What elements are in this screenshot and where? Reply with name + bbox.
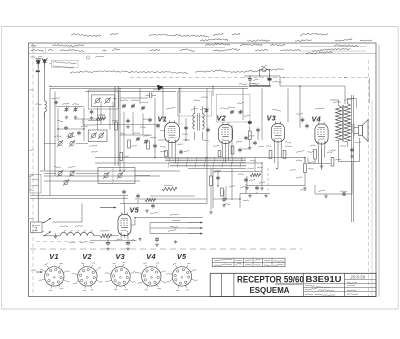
resistor R-d1 — [115, 122, 118, 130]
capacitor C-m2 — [156, 124, 160, 129]
coil box B2 — [88, 130, 107, 142]
switch S1b — [43, 231, 51, 236]
label v3 small — [266, 145, 292, 148]
trimmer CT4 — [204, 108, 208, 113]
label v1 small — [160, 144, 183, 148]
wire left mids — [44, 144, 150, 176]
wire heater bus — [40, 171, 180, 181]
scan page edge right — [397, 27, 399, 310]
capacitor C-t1 — [90, 110, 94, 120]
variable coil L11 — [69, 170, 75, 176]
resistor R-ls — [145, 198, 156, 201]
vertical dashed lm — [267, 168, 269, 190]
label power small — [60, 225, 137, 240]
trimmer CT2 — [131, 104, 135, 109]
capacitor C-d2 — [77, 131, 81, 136]
drawing frame right inner line — [378, 45, 380, 297]
resistor R-t1 — [96, 114, 106, 120]
arrow labels — [168, 214, 180, 232]
capacitor C-m3 — [153, 144, 157, 149]
trimmer CT7 — [133, 133, 150, 144]
handwritten header annotations — [31, 33, 372, 54]
wire lm — [240, 184, 270, 194]
left small box — [30, 175, 41, 194]
wire 23 — [258, 120, 262, 140]
capacitor C-p2 — [126, 241, 130, 251]
switch S1a — [43, 218, 51, 223]
fold dash-dot line right — [368, 60, 370, 296]
wire B+ dashed line — [130, 77, 370, 79]
small check marks — [31, 56, 105, 59]
label V5 — [130, 206, 140, 215]
capacitor C-if1 — [206, 128, 210, 133]
capacitor C-v4a — [296, 113, 304, 122]
label V4 socket — [146, 252, 156, 261]
resistor R-lm1 diagonal — [250, 173, 261, 176]
ground lm1 — [248, 194, 252, 198]
capacitor C-lm2 — [255, 186, 259, 191]
title text B3E91U — [306, 274, 342, 284]
transformer T1 secondary — [344, 104, 350, 143]
separator dashed line — [30, 248, 302, 250]
wire plug to heater — [44, 235, 60, 237]
coil box B3 — [178, 92, 212, 117]
capacitor C-v1 — [179, 150, 189, 155]
coil box B5 — [98, 168, 135, 184]
band hatch ticks — [168, 157, 242, 168]
socket V2 — [72, 263, 103, 291]
tube V2 — [218, 122, 232, 146]
power plug X1 — [31, 222, 43, 233]
header partial rule — [29, 47, 367, 51]
wire T1 bottom — [339, 138, 360, 162]
info box leader — [49, 63, 52, 65]
resistor R-v2b — [231, 146, 234, 154]
svg-text:V2: V2 — [82, 252, 92, 261]
capacitor C-ls1 — [122, 190, 126, 195]
info box top-left — [52, 60, 79, 68]
underline 59/60 — [276, 283, 303, 285]
variable coil L13 — [103, 172, 109, 178]
socket V4 — [136, 263, 167, 291]
resistor R-v4k — [308, 150, 317, 160]
variable coil L8 — [57, 140, 63, 146]
label L1011 — [54, 166, 75, 167]
label V3 socket — [116, 252, 126, 261]
svg-text:7: 7 — [35, 227, 38, 233]
svg-text:V5: V5 — [130, 206, 140, 215]
socket leader arrow — [31, 270, 43, 273]
title mid rows — [304, 284, 345, 296]
capacitor C-23a — [244, 115, 252, 125]
variable coil L4 — [90, 133, 96, 139]
wire AVC bus — [95, 157, 305, 159]
wire lower mid bus — [247, 185, 305, 187]
svg-text:V2: V2 — [217, 114, 227, 123]
capacitor C-ls2 — [136, 194, 140, 199]
wire mid extras 2 — [150, 158, 262, 198]
label tube types — [166, 107, 324, 111]
capacitor C-23b — [256, 128, 260, 133]
capacitor C-p1 — [106, 241, 110, 251]
trimmer CT5 — [230, 110, 243, 115]
wire antenna down-leads — [38, 69, 44, 103]
wire output lower — [315, 162, 352, 194]
label V4 — [312, 115, 322, 124]
wire lamp feed — [244, 75, 345, 86]
coil symbol L7 — [146, 89, 163, 98]
svg-text:V4: V4 — [312, 115, 322, 124]
labels CT — [120, 100, 148, 103]
pot R-vol — [296, 150, 314, 186]
fold dash-dot line left — [32, 55, 34, 296]
antenna A2 — [42, 58, 48, 69]
wire V3 leads — [275, 144, 281, 169]
labels d-mid — [214, 141, 361, 200]
svg-text:V1: V1 — [49, 252, 59, 261]
capacitor C-d3 — [184, 126, 188, 131]
speaker LS1 — [354, 120, 368, 142]
label V2 — [217, 114, 227, 123]
wire main bus upper — [50, 86, 248, 88]
capacitor C-v5g — [155, 237, 159, 246]
capacitor C-d4 — [216, 176, 220, 181]
trimmer CV2 — [73, 107, 77, 119]
capacitor C-m1 — [143, 118, 152, 123]
label v2 small — [213, 141, 242, 146]
capacitor C-v4b — [305, 124, 309, 129]
scan page edge top — [2, 26, 399, 28]
variable coil L10 — [57, 170, 63, 176]
resistor R-d2 — [128, 140, 131, 148]
capacitor C-lamp2 — [267, 77, 271, 81]
IF transformer T-IF1 — [191, 108, 207, 131]
junction dots extra — [57, 128, 240, 199]
title text RECEPTOR — [237, 275, 304, 285]
label T1 — [333, 99, 353, 103]
wire V5 top — [100, 204, 125, 215]
wire bus segment — [85, 90, 176, 92]
wire v5 right — [131, 217, 150, 234]
label V3 — [267, 114, 277, 123]
wire HT rail — [356, 99, 358, 109]
capacitor C-v2 — [238, 148, 248, 153]
wire left column — [38, 102, 44, 223]
ground vol — [303, 187, 307, 191]
coil box B1 — [88, 90, 118, 109]
wire power bottom — [90, 237, 135, 241]
wire arrow lines — [135, 218, 203, 234]
junction dots — [49, 77, 345, 169]
resistor R-m1 — [147, 141, 150, 149]
wire v4 bias — [308, 149, 330, 169]
ground v5 — [138, 238, 141, 241]
svg-text:V3: V3 — [116, 252, 126, 261]
wire tuning link — [56, 107, 104, 126]
labels B4 — [193, 83, 257, 108]
antenna link bar — [36, 70, 40, 72]
labels under heater — [69, 242, 95, 244]
ground out — [324, 195, 328, 199]
terminal arrow 2 — [188, 222, 203, 224]
bus arrow marker — [157, 85, 164, 91]
wire chassis double vertical — [115, 86, 118, 165]
wire hatch band — [165, 159, 246, 169]
wire B+ drop right — [369, 78, 371, 104]
wire power dashes — [36, 241, 88, 243]
capacitor C-sp — [350, 148, 354, 159]
label V5 socket — [177, 252, 187, 261]
wire T1 top — [330, 99, 356, 106]
pencil note line — [70, 69, 283, 74]
svg-text:RECEPTOR 59/60: RECEPTOR 59/60 — [237, 275, 304, 285]
coil box B4 — [217, 94, 251, 122]
variable coil L14 — [117, 172, 123, 178]
wire ht to v5 — [94, 235, 119, 237]
svg-text:V4: V4 — [146, 252, 156, 261]
resistor R-v4 — [331, 158, 334, 167]
ground arrows — [174, 240, 178, 244]
resistor R-m2 — [120, 153, 129, 161]
wire switch riser — [42, 204, 82, 232]
scan page edge bottom — [2, 308, 399, 310]
label v4 small — [327, 152, 341, 161]
heater loops chain — [60, 230, 93, 236]
terminal arrow 4 — [188, 233, 203, 235]
capacitor C-d1 — [64, 126, 68, 131]
svg-text:V5: V5 — [177, 252, 187, 261]
ground e1 — [245, 186, 264, 190]
header cell tick — [33, 43, 46, 53]
tube V5 — [118, 212, 131, 238]
lamp ground bar — [249, 83, 271, 86]
capacitor C-e3 — [253, 141, 257, 146]
ground ls — [145, 209, 149, 213]
variable coil L2 — [94, 98, 100, 104]
capacitor C-v5 — [151, 204, 155, 209]
resistor R-v1a — [165, 151, 168, 157]
svg-text:ESQUEMA: ESQUEMA — [250, 285, 290, 295]
wire mid-lower extras — [213, 171, 240, 208]
wire V4 leads — [318, 146, 324, 170]
label CV — [51, 98, 79, 105]
resistor R-v2a — [218, 151, 221, 157]
resistor R-e1 — [209, 169, 213, 214]
ground lm2 — [264, 194, 268, 198]
ground switch — [54, 233, 58, 239]
variable coil L5 — [98, 133, 104, 139]
svg-text:V1: V1 — [158, 115, 168, 124]
wire vertical drops — [50, 86, 354, 222]
socket V3 — [105, 262, 136, 290]
label L89 — [54, 136, 75, 138]
wire V1 leads — [169, 145, 175, 164]
wire speaker links — [348, 124, 352, 133]
tube V4 — [315, 122, 328, 147]
resistor R-23 — [248, 126, 252, 150]
title block frame — [210, 273, 376, 297]
resistor R-v3a — [269, 151, 272, 159]
scan page edge left — [1, 27, 3, 310]
variable coil L9 — [69, 140, 75, 146]
variable coil L3 — [104, 98, 110, 104]
capacitor C-lm1 — [244, 178, 248, 183]
labels d-left — [57, 115, 165, 153]
title right rows — [345, 274, 377, 294]
wires tuning mids — [95, 98, 160, 129]
svg-text:V3: V3 — [267, 114, 277, 123]
capacitor C-t2 — [126, 119, 130, 129]
labels e-mid — [215, 135, 336, 204]
wire v1 grid area — [158, 88, 243, 140]
wire V2 leads — [222, 146, 228, 164]
label V1 socket — [49, 252, 59, 261]
capacitor C-out — [318, 190, 347, 196]
transformer T1 core — [342, 105, 344, 142]
title text ESQUEMA — [250, 285, 290, 295]
capacitor C-e1 — [222, 197, 226, 207]
socket V1 — [39, 263, 70, 290]
trimmer CV1 — [64, 107, 68, 119]
resistor R-lm2 — [162, 185, 177, 191]
wire ls — [120, 196, 207, 214]
trimmer CT3 — [141, 106, 145, 111]
wire lower bus pair — [30, 196, 128, 199]
capacitor C-e2 — [244, 136, 248, 141]
socket V5 — [166, 263, 197, 290]
variable coil L12 — [63, 179, 69, 185]
label V1 — [158, 115, 168, 124]
variable coil L6 — [67, 132, 73, 138]
wire bus b2 — [95, 162, 262, 164]
wire IF1 links — [195, 106, 203, 140]
label V2 socket — [82, 252, 92, 261]
drawing frame border — [29, 43, 377, 297]
header rule line — [29, 52, 377, 54]
transformer T1 primary — [336, 106, 342, 142]
resistor R-v3b — [283, 151, 286, 159]
label lm small — [240, 168, 265, 188]
capacitor C-lamp1 — [248, 77, 258, 81]
tube V1 — [165, 120, 180, 145]
antenna A1 — [36, 59, 41, 69]
svg-text:20-8-59: 20-8-59 — [350, 274, 366, 279]
revision table — [212, 258, 285, 266]
tube V3 — [271, 121, 284, 144]
lamp P — [261, 66, 267, 72]
wire grid left-centre — [58, 98, 152, 171]
wire lamp loop — [260, 69, 270, 76]
resistor R-ht — [100, 230, 112, 238]
labels d-v1 — [160, 134, 209, 152]
wire right riser — [371, 100, 373, 296]
frame edge labels — [30, 89, 34, 219]
svg-text:B3E91U: B3E91U — [306, 274, 342, 284]
resistor R-d3 — [221, 188, 224, 196]
terminal arrow 3 — [188, 227, 203, 229]
trimmer CT1 — [122, 104, 126, 109]
inductor L1 — [36, 101, 47, 118]
